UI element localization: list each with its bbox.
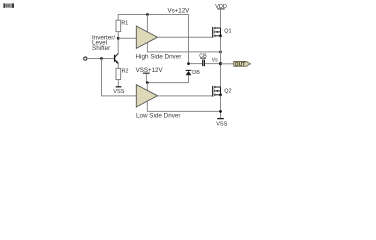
wire LSD output to Q2 gate	[158, 95, 213, 97]
transistor Q1	[213, 27, 221, 38]
capacitor CB	[189, 63, 203, 65]
wire R2 to ground	[117, 80, 119, 87]
svg-text:Q2: Q2	[224, 88, 231, 94]
junction Vs node	[219, 62, 222, 65]
wire LSD bottom supply to VSS	[147, 101, 220, 111]
svg-text:Vs+12V: Vs+12V	[167, 8, 190, 15]
wire R1 to collector	[117, 32, 119, 53]
resistor R1	[116, 20, 121, 31]
port OUT flag	[234, 62, 251, 67]
svg-text:R2: R2	[122, 68, 129, 74]
svg-text:Low Side Driver: Low Side Driver	[136, 112, 180, 119]
port input	[84, 57, 87, 60]
svg-text:R1: R1	[121, 20, 128, 26]
ground VSS right	[217, 118, 224, 120]
wire DB anode down and left	[147, 75, 188, 82]
wire top rail Vs+12V	[118, 15, 188, 21]
wire HSD output to Q1 gate	[158, 36, 213, 38]
wire Vs+12V vertical drop to CB node	[188, 15, 190, 64]
transistor Q3 inverter NPN	[114, 55, 116, 62]
op-amp U2 Low Side Driver	[136, 85, 157, 107]
junction VSS rail	[219, 110, 222, 113]
logo badge	[3, 3, 14, 7]
transistor Q2	[213, 86, 221, 97]
junction VSS+12V / LSD supply	[146, 81, 149, 84]
svg-text:DB: DB	[192, 70, 200, 76]
junction R1 / driver input	[117, 37, 120, 40]
wire main output rail	[220, 28, 222, 118]
svg-text:VSS: VSS	[113, 89, 124, 95]
svg-text:OUT: OUT	[235, 62, 246, 68]
wire input to base	[87, 58, 114, 60]
junction CB left / DB	[187, 62, 190, 65]
ground VSS left	[116, 86, 122, 88]
svg-text:Shifter: Shifter	[92, 45, 110, 52]
wire input down to LSD	[102, 59, 137, 96]
junction input branch	[100, 57, 103, 60]
wire HSD input	[118, 37, 136, 39]
wire HSD top supply drop	[146, 15, 148, 38]
wire emitter to R2	[117, 64, 119, 69]
resistor R2	[116, 68, 121, 79]
wire VDD to Q1 drain	[220, 9, 222, 28]
wire to OUT	[221, 63, 234, 65]
junction top rail / HSD supply	[146, 13, 149, 16]
diode DB	[186, 69, 192, 71]
wire HSD bottom supply to Vs	[147, 43, 220, 52]
wire LSD top supply drop	[146, 83, 148, 95]
svg-text:VSS: VSS	[216, 122, 227, 128]
svg-text:High Side Driver: High Side Driver	[136, 54, 182, 61]
op-amp U1 High Side Driver	[136, 26, 157, 48]
svg-text:Vs: Vs	[212, 58, 218, 64]
svg-text:Q1: Q1	[224, 29, 231, 35]
junction HSD bottom / Vs rail	[219, 51, 222, 54]
